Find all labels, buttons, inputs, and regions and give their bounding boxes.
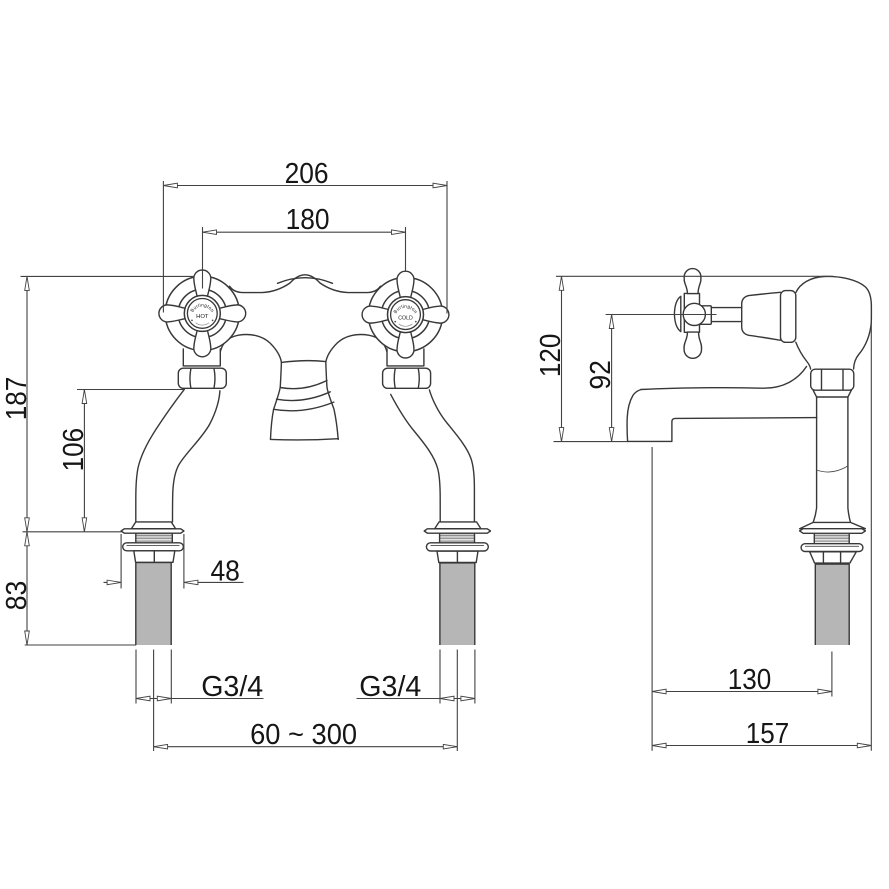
spout right flank [326,335,387,440]
side spindle [711,308,742,322]
right shank flange flare [435,522,481,529]
left shank flange flare [131,522,175,529]
left backnut washer [123,543,184,551]
dim 130 [652,447,832,751]
left leg tube [136,390,184,522]
spout left flank [220,335,281,440]
right top nut [383,368,431,388]
side crosshead vertical bar [684,293,699,332]
svg-text:HOT: HOT [196,314,209,320]
dim 48 [104,534,244,589]
left backnut hex [134,551,175,563]
right handle crosshead [362,271,449,358]
svg-text:92: 92 [585,360,617,390]
spout joint line [281,361,325,363]
spout outlet bottom [271,439,339,440]
dim 106 [58,390,185,532]
svg-text:G3/4: G3/4 [359,671,421,703]
side crosshead boss [683,303,705,325]
side spout underside with step [628,418,817,442]
bridge body top edge with centre peak [230,275,381,293]
left valve body bottom edge [183,365,220,367]
side crosshead front lobe [674,296,680,331]
dim 83 [1,532,136,645]
right handle cap text COLD [393,304,419,327]
spout ring 2 [277,392,331,401]
side backnut washer [801,544,863,552]
dim 206 [163,158,447,314]
side hex nut [811,369,854,390]
right flange plate [424,529,490,533]
side crosshead bottom lobe [684,332,702,358]
side knurled band [814,533,849,543]
dim 187 [1,276,194,531]
svg-text:120: 120 [535,334,567,378]
side crosshead top lobe [684,269,701,294]
bridge inner crease under peak [278,278,333,284]
right valve body bottom edge [387,365,424,367]
side backnut hex [810,552,857,563]
side spindle adapter [700,306,712,325]
left valve body [183,349,220,365]
side collar under hex [813,390,851,397]
side spout top [641,367,807,390]
svg-text:187: 187 [1,377,33,421]
side bonnet cone [742,292,781,340]
right knurled band [440,533,475,542]
svg-text:48: 48 [210,556,240,588]
right leg tube [391,394,441,522]
right threaded shank [440,563,475,645]
left threaded shank [136,563,171,645]
right backnut washer [426,543,488,551]
svg-text:83: 83 [1,581,33,611]
side valve ball body [796,276,872,369]
svg-text:180: 180 [286,204,330,236]
side bonnet collar [781,291,796,343]
svg-text:COLD: COLD [398,315,413,321]
side pipe joint arc [817,466,848,472]
svg-text:157: 157 [746,718,790,750]
side spout nose [627,390,641,442]
side standpipe [813,397,850,522]
spout ring 3 [274,402,334,411]
right valve body [387,349,424,365]
dim 60 ~ 300 [154,650,458,752]
left flange plate [121,529,184,533]
left knurled band [136,533,173,542]
dim 157 [652,322,871,751]
svg-text:130: 130 [728,664,772,696]
dim 120 [535,276,833,441]
dim G3/4 left [136,650,264,704]
dim G3/4 right [357,650,475,704]
dim 180 [203,204,406,288]
left handle crosshead [159,270,246,357]
left top nut [178,368,226,388]
side threaded shank [815,564,849,645]
side flange plate [800,529,866,534]
spout ring 1 [280,381,327,389]
left handle cap text HOT [189,302,215,325]
svg-text:60 ~ 300: 60 ~ 300 [250,719,357,751]
svg-text:106: 106 [58,428,90,472]
side flange cone [800,522,866,528]
dim 92 [585,315,717,442]
svg-text:G3/4: G3/4 [201,671,263,703]
svg-text:206: 206 [285,158,329,190]
right backnut hex [437,551,478,562]
